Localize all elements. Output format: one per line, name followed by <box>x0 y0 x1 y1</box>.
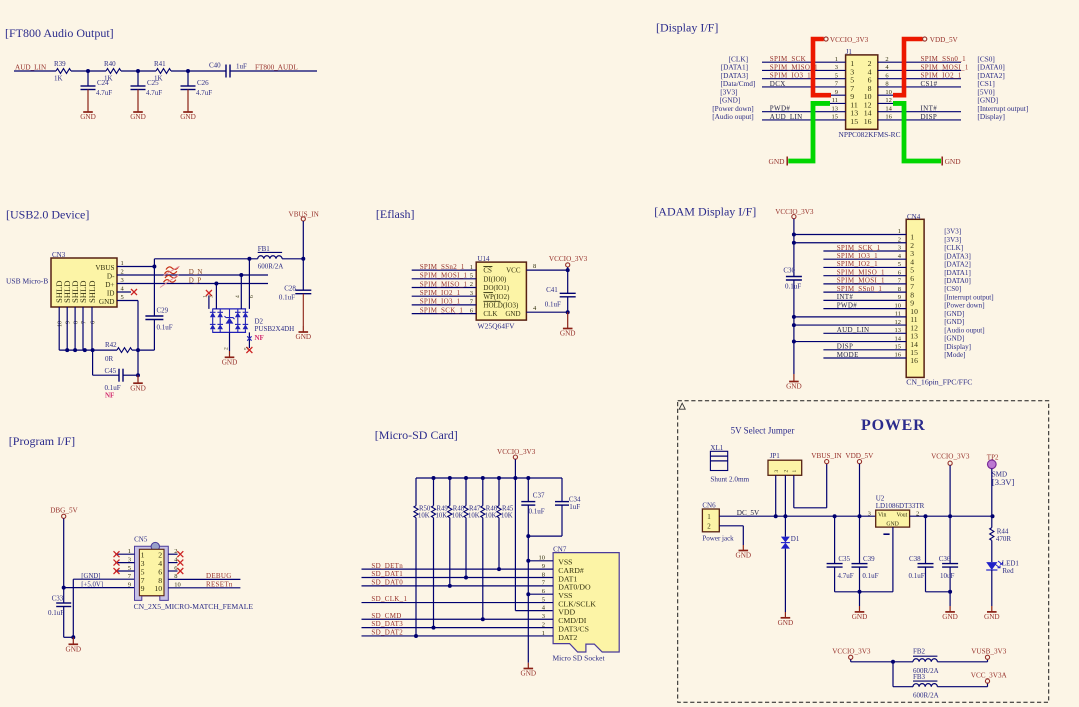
svg-text:NF: NF <box>105 392 114 400</box>
svg-text:10: 10 <box>885 89 892 96</box>
svg-text:SPIM_MOSI_1: SPIM_MOSI_1 <box>420 272 468 280</box>
svg-text:SPIM_SCK_1: SPIM_SCK_1 <box>420 306 464 314</box>
svg-text:5: 5 <box>835 72 838 79</box>
svg-text:Vout: Vout <box>896 512 907 518</box>
capacitor C25 4.7uF <box>131 71 163 97</box>
net label FT800_AUDL <box>255 63 298 71</box>
svg-text:GND: GND <box>736 552 752 560</box>
diode array D2 PUSB2X4DH <box>210 309 248 333</box>
svg-text:SPIM_IO3_1: SPIM_IO3_1 <box>420 298 461 306</box>
wire audio main <box>14 70 317 72</box>
capacitor C24 4.7uF <box>81 71 113 97</box>
svg-text:14: 14 <box>885 105 892 112</box>
wire FB3 to VCC_3V3A <box>937 683 987 687</box>
wire CN6 pin2 to GND <box>719 526 743 545</box>
CN7 pin names and numbers <box>539 555 597 642</box>
wire CN5 pin 7 GND elbow <box>73 579 134 637</box>
svg-text:[DATA2]: [DATA2] <box>944 261 971 269</box>
svg-text:C25: C25 <box>147 79 159 87</box>
svg-text:R40: R40 <box>104 60 116 68</box>
svg-text:C37: C37 <box>533 492 545 500</box>
ground below C35/C39 <box>852 592 868 621</box>
svg-text:9: 9 <box>898 294 901 301</box>
svg-text:RESETn: RESETn <box>206 581 233 589</box>
label USB Micro-B <box>6 277 48 286</box>
ground below C45/R42 <box>130 375 146 392</box>
J1 left net labels <box>770 55 818 121</box>
capacitor C33 0.1uF <box>48 588 75 640</box>
svg-text:9: 9 <box>141 584 145 593</box>
svg-text:[DATA0]: [DATA0] <box>944 277 971 285</box>
svg-text:[GND]: [GND] <box>81 573 100 580</box>
svg-text:[Eflash]: [Eflash] <box>376 207 415 221</box>
ground below SD <box>521 663 537 678</box>
test point TP2 <box>987 454 999 469</box>
POWER section dashed border <box>678 401 1049 703</box>
svg-text:2: 2 <box>174 548 177 555</box>
resistor R47 10K pull-up <box>464 478 481 578</box>
differential pair marker D_P <box>160 275 179 288</box>
capacitor C40 1uF (series) <box>209 61 247 77</box>
J1 left pin wires <box>762 62 846 120</box>
wire junction to GND below R42 <box>136 350 140 377</box>
CN3 pin 1 VBUS <box>95 260 123 272</box>
ground terminal right (J1) <box>942 157 961 167</box>
node dots on shield bus <box>65 348 94 352</box>
svg-text:AUD_LIN: AUD_LIN <box>770 113 803 121</box>
svg-text:GND: GND <box>984 613 1000 621</box>
capacitor C41 0.1uF <box>545 270 576 314</box>
D2 pin 5 stub with X <box>246 332 252 353</box>
svg-text:SPIM_SCK: SPIM_SCK <box>770 55 806 63</box>
svg-text:0.1uF: 0.1uF <box>545 301 561 309</box>
svg-text:CN5: CN5 <box>134 536 148 544</box>
node R45 to signal row <box>497 567 501 571</box>
pull-up bus wire <box>416 477 562 479</box>
wire CN3 pin1 VBUS <box>117 266 154 268</box>
CN5 no-connect X marks left pins 1,3,5 <box>114 551 120 574</box>
svg-text:SHLD: SHLD <box>87 281 97 303</box>
svg-text:2: 2 <box>470 281 473 288</box>
svg-text:5: 5 <box>470 273 473 280</box>
ground terminal left (J1) <box>768 157 787 167</box>
thick red wire VDD_5V to J1 pin 10 <box>893 39 923 95</box>
section title Eflash <box>376 207 415 221</box>
resistor R44 470R <box>990 516 1012 543</box>
svg-text:10: 10 <box>58 321 64 327</box>
resistor R45 10K pull-up <box>497 478 514 569</box>
svg-text:SPIM_MOSI_1: SPIM_MOSI_1 <box>921 63 969 71</box>
svg-text:0.1uF: 0.1uF <box>862 572 878 580</box>
NF marking C45 <box>105 392 114 400</box>
svg-text:SPIM_IO3_1: SPIM_IO3_1 <box>770 72 811 80</box>
svg-text:FT800_AUDL: FT800_AUDL <box>255 63 298 71</box>
svg-text:8: 8 <box>74 321 80 324</box>
ground below C33 <box>66 637 82 653</box>
svg-text:DBG_5V: DBG_5V <box>50 506 78 514</box>
svg-text:600R/2A: 600R/2A <box>913 692 939 700</box>
thick green wire J1 pin 11 to GND <box>788 103 830 161</box>
node junction R42/pin5/C29 <box>136 348 154 352</box>
ferrite bead FB3 600R/2A <box>913 673 939 700</box>
svg-text:1K: 1K <box>54 75 63 83</box>
D2 pin 2 rotated number <box>224 347 230 350</box>
thick green wire J1 pin 12 to GND <box>893 103 941 161</box>
svg-text:470R: 470R <box>996 535 1012 543</box>
svg-text:[USB2.0 Device]: [USB2.0 Device] <box>6 208 89 222</box>
svg-text:10: 10 <box>154 584 162 593</box>
node R50 to signal row <box>414 634 418 638</box>
capacitor C36 10uF <box>939 516 958 594</box>
svg-text:14: 14 <box>895 335 902 342</box>
bus junction dots <box>432 476 531 480</box>
wire D+ (pin3) <box>117 283 268 285</box>
label 5V Select Jumper <box>731 426 795 436</box>
svg-text:15: 15 <box>832 114 839 121</box>
node junction R39/C24 <box>86 69 90 73</box>
svg-text:VUSB_3V3: VUSB_3V3 <box>971 647 1007 655</box>
svg-text:GND: GND <box>99 298 115 306</box>
svg-text:C29: C29 <box>157 307 169 315</box>
label Shunt 2.0mm <box>710 475 749 483</box>
resistor R46 10K pull-up <box>481 478 498 619</box>
svg-text:1: 1 <box>707 513 711 521</box>
svg-text:DISP: DISP <box>921 113 938 121</box>
svg-text:CN_2X5_MICRO-MATCH_FEMALE: CN_2X5_MICRO-MATCH_FEMALE <box>134 602 254 611</box>
net label D_P <box>189 277 202 285</box>
svg-text:7: 7 <box>81 321 87 324</box>
wire DBG_5V down <box>62 518 66 589</box>
svg-text:C24: C24 <box>97 79 109 87</box>
ground below D2 <box>222 351 238 367</box>
svg-text:8: 8 <box>533 263 536 270</box>
svg-text:1uF: 1uF <box>569 503 580 511</box>
POWER title <box>861 417 925 434</box>
CN3 pin 3 D+ <box>105 277 124 289</box>
svg-text:VCC_3V3A: VCC_3V3A <box>971 671 1008 679</box>
D2 pin 2 wire <box>229 332 231 351</box>
svg-text:DISP: DISP <box>837 343 854 351</box>
section title ADAM Display I/F <box>654 205 756 219</box>
U14 pin 6 CLK wire and net label SPIM_SCK_1 <box>412 306 498 318</box>
svg-text:2: 2 <box>784 470 790 473</box>
svg-text:5: 5 <box>128 565 131 572</box>
CN3 pin 4 ID <box>107 286 125 298</box>
svg-text:DC_5V: DC_5V <box>737 509 760 517</box>
svg-text:[+5.0V]: [+5.0V] <box>81 581 103 588</box>
J1 left bracket labels <box>712 54 755 121</box>
svg-text:12: 12 <box>895 319 902 326</box>
CN4 pin numbers <box>895 228 919 365</box>
svg-text:SD_DETn: SD_DETn <box>371 562 403 570</box>
connector CN7 Micro SD Socket <box>553 545 620 662</box>
svg-text:10uF: 10uF <box>940 572 955 580</box>
CN4 pin wires <box>794 235 906 359</box>
power terminal VCC_3V3A <box>971 671 1008 683</box>
svg-text:SPIM_SSn0_1: SPIM_SSn0_1 <box>837 285 883 293</box>
svg-text:SD_DAT2: SD_DAT2 <box>371 629 403 637</box>
svg-text:VDD_5V: VDD_5V <box>845 452 874 460</box>
svg-text:POWER: POWER <box>861 417 925 434</box>
svg-text:[CLK]: [CLK] <box>944 244 963 252</box>
svg-text:5V Select Jumper: 5V Select Jumper <box>731 426 795 436</box>
section title FT800 Audio Output <box>5 26 114 40</box>
svg-text:DCX: DCX <box>770 80 786 88</box>
svg-text:TP2: TP2 <box>987 454 999 462</box>
svg-text:10K: 10K <box>468 513 480 520</box>
J1 right pin wires <box>878 62 961 120</box>
U14 pin 1 CS wire and net label SPIM_SSn2_1 <box>412 263 493 275</box>
section title Micro-SD Card <box>375 428 458 442</box>
resistor R40 1K <box>104 60 121 82</box>
ground below D1 <box>778 612 794 627</box>
section title Program I/F <box>9 434 75 448</box>
svg-text:[Power down]: [Power down] <box>944 302 984 310</box>
D2 pin 1/3 rotated numbers <box>203 295 215 298</box>
svg-text:C33: C33 <box>52 595 64 603</box>
node junction R40/C25 <box>136 69 140 73</box>
svg-text:C40: C40 <box>209 61 221 69</box>
svg-text:INT#: INT# <box>837 293 854 301</box>
ground below C41 <box>560 312 576 338</box>
svg-text:FB3: FB3 <box>913 673 926 681</box>
section title USB2.0 Device <box>6 208 89 222</box>
wire VCCIO to FB2/FB3 node <box>851 659 895 663</box>
svg-text:1: 1 <box>128 548 131 555</box>
svg-text:C30: C30 <box>783 267 795 275</box>
svg-text:GND: GND <box>942 613 958 621</box>
svg-text:J1: J1 <box>846 48 853 56</box>
svg-text:VCCIO_3V3: VCCIO_3V3 <box>830 36 869 44</box>
resistor R42 0R <box>105 341 138 363</box>
svg-text:R42: R42 <box>105 341 117 349</box>
ground below C38/C36 <box>942 592 958 621</box>
svg-text:[Audio ouput]: [Audio ouput] <box>944 326 984 334</box>
svg-text:R39: R39 <box>54 60 66 68</box>
svg-text:C26: C26 <box>197 79 209 87</box>
svg-text:C35: C35 <box>838 555 850 563</box>
svg-text:GND: GND <box>66 646 82 654</box>
svg-text:SD_CLK_1: SD_CLK_1 <box>371 595 407 603</box>
wire VDD_5V column <box>858 464 862 519</box>
svg-text:13: 13 <box>832 105 839 112</box>
svg-text:0.1uF: 0.1uF <box>909 572 925 580</box>
svg-text:GND: GND <box>80 113 96 121</box>
U14 pin 4 GND <box>505 305 567 318</box>
svg-text:USB Micro-B: USB Micro-B <box>6 277 48 286</box>
svg-text:GND: GND <box>778 619 794 627</box>
svg-text:11: 11 <box>895 311 901 318</box>
ferrite bead FB1 600R/2A <box>258 245 284 271</box>
svg-text:[GND]: [GND] <box>944 335 964 343</box>
svg-text:CS1#: CS1# <box>921 80 938 88</box>
svg-text:SPIM_MISO_1: SPIM_MISO_1 <box>837 268 885 276</box>
svg-text:DEBUG: DEBUG <box>206 572 232 580</box>
power terminal VCCIO_3V3 (Eflash) <box>549 255 588 272</box>
U14 pin 2 DO(IO1) wire and net label SPIM_MISO_1 <box>412 280 510 292</box>
svg-text:ID: ID <box>107 289 115 297</box>
svg-text:15: 15 <box>850 117 858 126</box>
svg-text:8: 8 <box>885 81 888 88</box>
wire VCCIO vertical to C30 <box>793 219 795 277</box>
net label [+5.0V] <box>81 581 103 588</box>
svg-text:CN7: CN7 <box>553 545 567 553</box>
net label DC_5V <box>737 509 760 517</box>
svg-text:CN4: CN4 <box>907 213 921 221</box>
svg-text:C41: C41 <box>546 286 558 294</box>
power terminal DBG_5V <box>50 506 78 518</box>
regulator U2 LD1086DT33TR <box>868 495 925 528</box>
power terminal VUSB_3V3 <box>971 647 1007 659</box>
svg-text:6: 6 <box>90 321 96 324</box>
power terminal VCCIO_3V3 (power out) <box>931 452 970 516</box>
J1 pin numbers <box>832 56 893 126</box>
svg-text:[DATA3]: [DATA3] <box>944 252 971 260</box>
svg-text:1uF: 1uF <box>236 62 247 70</box>
D2 pin 4/6 rotated numbers <box>235 295 255 298</box>
svg-text:[Micro-SD Card]: [Micro-SD Card] <box>375 428 458 442</box>
ground below C24 <box>80 90 96 122</box>
svg-text:GND: GND <box>130 384 146 392</box>
svg-text:SPIM_SSn2_1: SPIM_SSn2_1 <box>420 263 465 271</box>
svg-text:2: 2 <box>885 56 888 63</box>
D2 pin 4 wire to D_N <box>239 273 243 309</box>
svg-text:[Mode]: [Mode] <box>944 351 965 359</box>
svg-text:GND: GND <box>886 522 899 528</box>
svg-text:[DATA1]: [DATA1] <box>944 269 971 277</box>
svg-text:PWD#: PWD# <box>837 301 858 309</box>
svg-text:C36: C36 <box>939 555 951 563</box>
connector CN6 power jack <box>702 502 734 543</box>
power terminal VCCIO_3V3 (SD) <box>497 448 536 459</box>
jumper JP1 <box>768 452 802 476</box>
capacitor C35 4.7uF <box>827 514 859 592</box>
svg-text:16: 16 <box>910 356 918 365</box>
svg-text:4.7uF: 4.7uF <box>838 572 854 580</box>
svg-text:[Program I/F]: [Program I/F] <box>9 434 75 448</box>
ground below C28 <box>296 294 312 342</box>
svg-text:10K: 10K <box>485 513 497 520</box>
wire node down to FB3 <box>893 662 913 687</box>
wire R44 to LED1 <box>991 540 993 562</box>
IC U14 W25Q64FV <box>476 255 526 330</box>
svg-text:5: 5 <box>898 261 901 268</box>
svg-text:11: 11 <box>832 97 838 104</box>
CN5 no-connect X marks right pins 2,4,6 <box>177 551 183 574</box>
svg-text:VBUS_IN: VBUS_IN <box>289 210 320 218</box>
svg-text:PWD#: PWD# <box>770 105 791 113</box>
svg-text:LD1086DT33TR: LD1086DT33TR <box>876 502 925 510</box>
svg-text:SPIM_IO2_1: SPIM_IO2_1 <box>837 260 878 268</box>
svg-text:VCCIO_3V3: VCCIO_3V3 <box>931 452 970 460</box>
ferrite bead FB2 600R/2A <box>893 648 939 675</box>
CN4 bracket labels <box>944 228 993 360</box>
connector CN3 (USB Micro-B) <box>51 251 117 307</box>
power terminal VBUS_IN (power) <box>811 452 842 464</box>
svg-text:600R/2A: 600R/2A <box>258 263 284 271</box>
resistor R49 10K pull-up <box>431 478 448 628</box>
svg-text:C39: C39 <box>863 555 875 563</box>
svg-text:1: 1 <box>898 228 901 235</box>
wire D- (pin2) <box>117 274 268 276</box>
svg-text:3: 3 <box>774 470 780 473</box>
svg-text:GND: GND <box>505 310 520 318</box>
svg-text:MODE: MODE <box>837 351 859 359</box>
svg-text:0.1uF: 0.1uF <box>529 508 545 516</box>
svg-text:16: 16 <box>895 352 902 359</box>
U14 pin 7 HOLD(IO3) wire and net label SPIM_IO3_1 <box>412 298 519 310</box>
svg-text:D1: D1 <box>791 535 800 543</box>
svg-text:10: 10 <box>895 302 902 309</box>
svg-text:3: 3 <box>868 511 871 518</box>
U14 pin 3 WP(IO2) wire and net label SPIM_IO2_1 <box>412 289 510 301</box>
svg-text:GND: GND <box>130 113 146 121</box>
wire C30 to GND vertical <box>793 280 795 374</box>
svg-text:16: 16 <box>864 117 872 126</box>
svg-text:6: 6 <box>249 295 255 298</box>
svg-text:16: 16 <box>885 114 892 121</box>
svg-text:D_N: D_N <box>189 268 203 276</box>
svg-text:DO(IO1): DO(IO1) <box>483 284 509 292</box>
svg-text:JP1: JP1 <box>770 452 781 460</box>
svg-text:0.1uF: 0.1uF <box>785 282 801 290</box>
svg-text:8: 8 <box>898 286 901 293</box>
svg-text:VDD_5V: VDD_5V <box>930 36 959 44</box>
CN3 pin 5 GND <box>99 294 124 306</box>
svg-text:GND: GND <box>521 670 537 678</box>
svg-text:C45: C45 <box>105 367 117 375</box>
capacitor C45 0.1uF NF (series) <box>93 350 138 392</box>
svg-text:C38: C38 <box>909 555 921 563</box>
CN3 shield pin numbers 10 9 8 7 6 <box>58 321 97 327</box>
svg-text:2: 2 <box>898 236 901 243</box>
svg-text:[CS0]: [CS0] <box>944 285 961 293</box>
svg-text:SPIM_IO3_1: SPIM_IO3_1 <box>837 252 878 260</box>
svg-text:SPIM_MOSI_1: SPIM_MOSI_1 <box>837 277 885 285</box>
D2 pin 5 rotated number <box>243 347 249 350</box>
svg-text:5: 5 <box>243 347 249 350</box>
resistor R39 1K <box>54 60 71 82</box>
node dots CN4 pins 1,2 <box>792 233 796 245</box>
svg-text:D_P: D_P <box>189 277 202 285</box>
svg-text:PUSB2X4DH: PUSB2X4DH <box>255 325 295 333</box>
svg-text:W25Q64FV: W25Q64FV <box>478 321 516 330</box>
svg-text:D+: D+ <box>105 281 114 289</box>
svg-text:2: 2 <box>224 347 230 350</box>
CN5 pin stubs and numbers <box>115 548 180 593</box>
wire JP1 pin3 to DC_5V line <box>774 475 778 518</box>
connector J1 NPPC082KFMS-RC <box>839 48 901 139</box>
svg-text:DAT2: DAT2 <box>558 633 577 642</box>
CN4 net labels <box>837 244 885 359</box>
node R47 to signal row <box>464 576 468 580</box>
svg-text:VBUS: VBUS <box>95 264 114 272</box>
svg-text:0.1uF: 0.1uF <box>279 293 295 301</box>
ground below C30 <box>786 374 802 391</box>
svg-text:SPIM_SCK_1: SPIM_SCK_1 <box>837 244 881 252</box>
capacitor C29 0.1uF <box>145 265 172 351</box>
svg-text:GND: GND <box>852 613 868 621</box>
wire JP1 pin1 to VBUS_IN <box>794 464 827 508</box>
wire LED1 to GND <box>984 570 1000 621</box>
svg-text:3: 3 <box>470 290 473 297</box>
power terminal VDD_5V <box>923 36 959 44</box>
svg-text:13: 13 <box>895 327 902 334</box>
capacitor C34 1uF <box>528 478 581 536</box>
svg-text:[Display]: [Display] <box>977 112 1005 121</box>
svg-text:3: 3 <box>128 556 131 563</box>
svg-text:C28: C28 <box>284 284 296 292</box>
